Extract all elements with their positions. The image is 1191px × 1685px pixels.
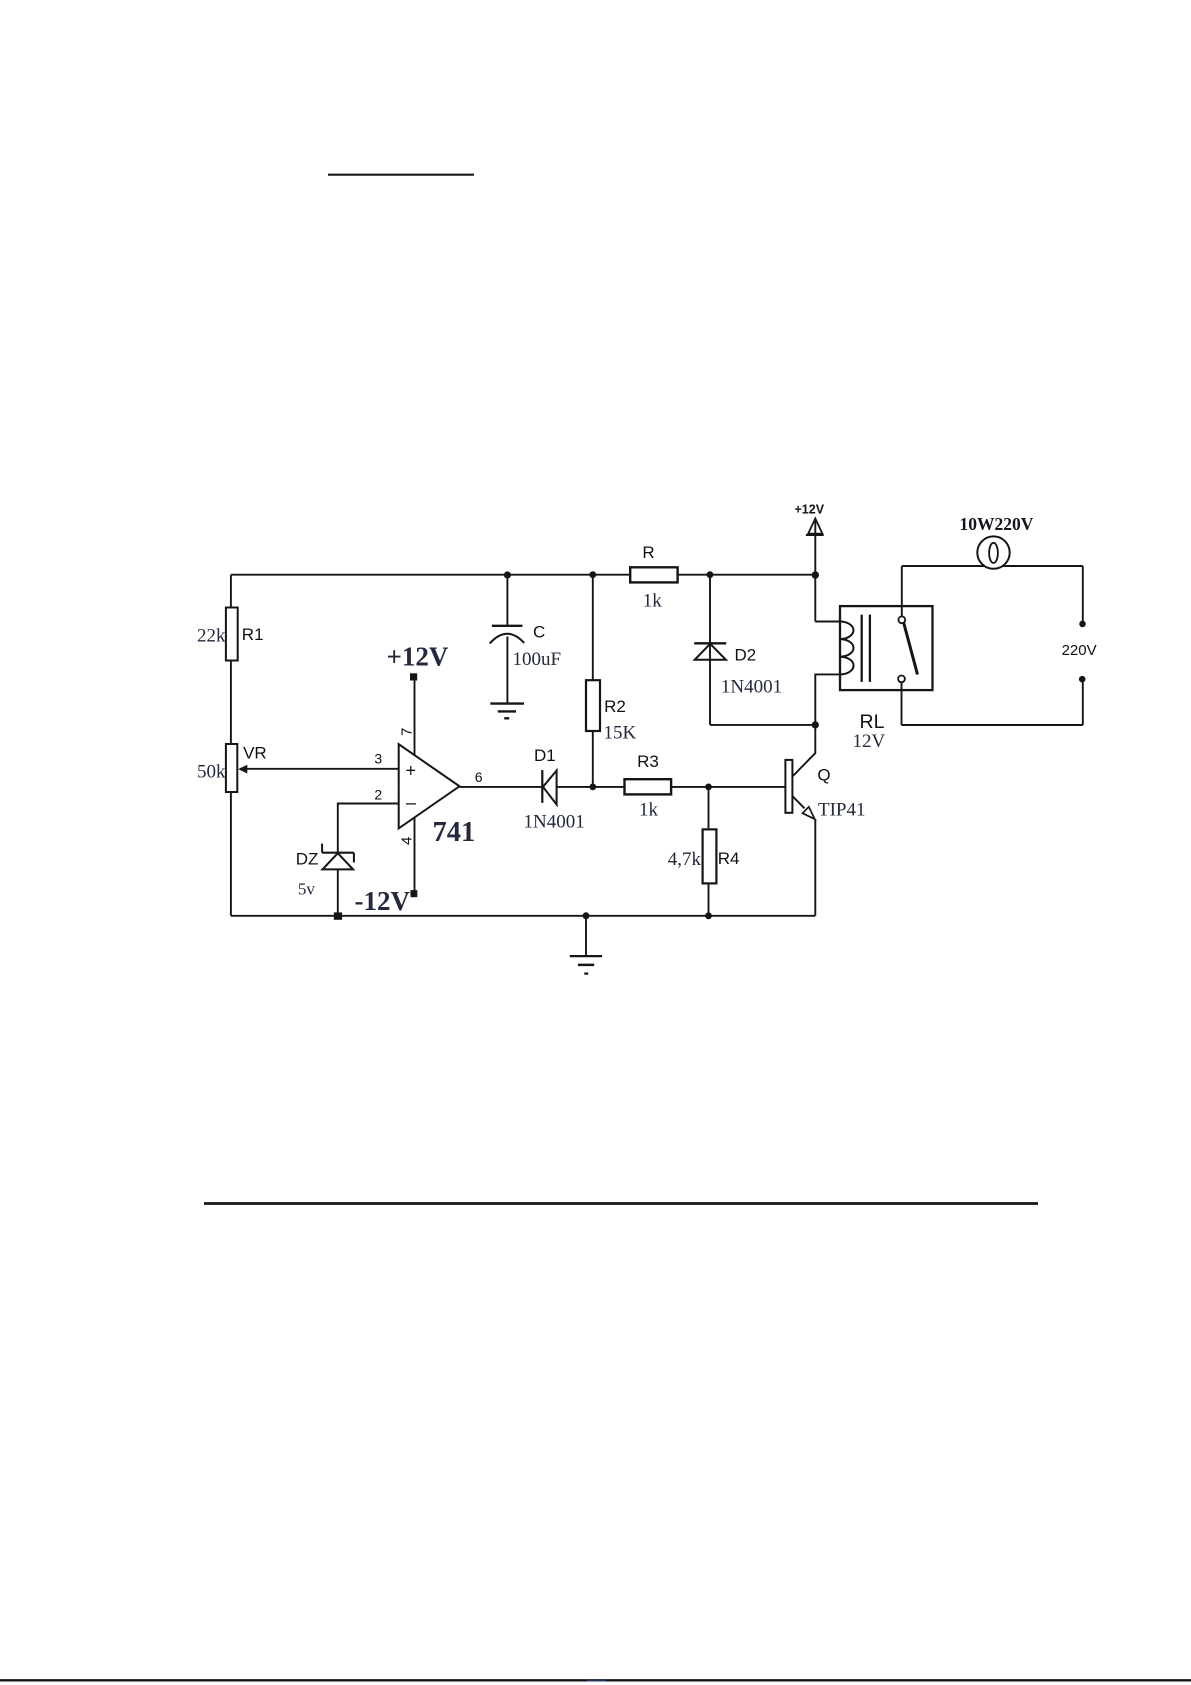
footer rule (0, 1679, 1191, 1681)
svg-text:4,7k: 4,7k (668, 849, 702, 870)
ground (capacitor) (490, 704, 524, 719)
svg-text:220V: 220V (1062, 642, 1097, 659)
node top rail at R2 (589, 571, 596, 578)
resistor R2 (586, 680, 637, 743)
wire R4 to bottom rail (708, 883, 710, 915)
pin 4 wire (414, 817, 416, 890)
svg-text:2: 2 (374, 787, 382, 803)
pin 7 wire (414, 681, 416, 757)
node 220V top terminal (1079, 621, 1086, 628)
transistor Q TIP41 (785, 725, 865, 821)
node top rail at +12V (812, 571, 819, 578)
node R4 bottom junction (705, 912, 712, 919)
node top rail at D2 (707, 571, 714, 578)
svg-text:10W220V: 10W220V (959, 514, 1033, 534)
resistor R1 (197, 608, 264, 661)
wire R4 branch (708, 787, 710, 830)
relay core lines (862, 615, 870, 682)
svg-text:R4: R4 (718, 849, 740, 868)
svg-text:5v: 5v (298, 880, 316, 899)
zener diode DZ (296, 844, 354, 899)
wire emitter down (814, 819, 816, 916)
svg-text:-12V: -12V (355, 886, 411, 916)
svg-text:+12V: +12V (795, 503, 825, 517)
diode D1 1N4001 (524, 746, 585, 833)
svg-text:12V: 12V (853, 731, 886, 752)
wire D2 to collector node (710, 724, 815, 726)
svg-text:D1: D1 (534, 746, 556, 765)
wire relay coil top stub (815, 621, 840, 623)
resistor R4 (668, 829, 740, 883)
svg-text:D2: D2 (735, 646, 757, 665)
svg-text:R3: R3 (637, 752, 659, 771)
svg-text:741: 741 (433, 817, 476, 848)
svg-text:15K: 15K (604, 723, 637, 744)
wire ground stem (585, 916, 587, 956)
op-amp U1 741 (399, 744, 476, 848)
section rule (204, 1202, 1038, 1205)
relay RL box (840, 606, 933, 690)
power +12V square pad (410, 673, 417, 680)
ground (bottom rail) (570, 956, 602, 974)
svg-text:1k: 1k (639, 800, 659, 821)
svg-text:1N4001: 1N4001 (524, 812, 585, 833)
svg-text:+: + (406, 761, 417, 781)
wire op-amp output (460, 786, 593, 788)
diode D2 1N4001 (694, 643, 782, 697)
power +12V arrow (795, 503, 825, 622)
node 220V bottom terminal (1079, 676, 1086, 683)
potentiometer VR (197, 744, 267, 793)
wire switch bottom (901, 682, 903, 725)
wire D2 branch (709, 575, 711, 725)
relay switch (898, 616, 917, 682)
wire DZ to bottom rail (337, 869, 339, 915)
resistor R (630, 543, 677, 612)
svg-text:22k: 22k (197, 626, 226, 647)
svg-text:Q: Q (817, 766, 830, 785)
wire lamp loop top (902, 565, 1083, 567)
wire bottom rail (231, 915, 815, 917)
svg-text:–: – (406, 793, 416, 813)
wire R3 to base (671, 786, 785, 788)
node B junction (589, 784, 596, 791)
svg-text:4: 4 (398, 837, 415, 845)
relay coil arcs (840, 622, 854, 675)
node top rail at C (504, 571, 511, 578)
capacitor C (490, 575, 561, 704)
power -12V square pad (411, 890, 418, 897)
wire left rail (230, 575, 232, 916)
node collector junction (812, 721, 819, 728)
wire pin2 input (338, 804, 399, 853)
wire relay coil bottom stub (815, 674, 840, 725)
node DZ bottom junction (334, 912, 342, 919)
wire R2 branch top (592, 575, 594, 681)
wiper arrowhead (238, 765, 247, 774)
svg-text:50k: 50k (197, 762, 226, 783)
node ground junction (583, 912, 590, 919)
svg-text:1N4001: 1N4001 (721, 677, 782, 698)
svg-text:DZ: DZ (296, 850, 319, 869)
wire wiper to pin 3 (240, 768, 399, 770)
svg-text:VR: VR (243, 744, 267, 763)
svg-text:1k: 1k (643, 591, 663, 612)
svg-text:3: 3 (374, 751, 382, 767)
node base junction (705, 784, 712, 791)
wire switch top (901, 566, 903, 616)
svg-text:R1: R1 (242, 625, 264, 644)
wire node B to R3 (593, 786, 625, 788)
footer page mark (587, 1679, 606, 1681)
svg-text:C: C (533, 623, 545, 642)
svg-text:6: 6 (475, 769, 483, 785)
resistor R3 (625, 752, 672, 821)
svg-text:R: R (642, 543, 654, 562)
label RL 12V (853, 711, 886, 752)
svg-text:7: 7 (398, 728, 415, 736)
svg-text:+12V: +12V (387, 641, 449, 671)
svg-text:R2: R2 (604, 697, 626, 716)
lamp 10W220V (959, 514, 1033, 569)
svg-text:TIP41: TIP41 (818, 800, 866, 821)
svg-text:RL: RL (860, 711, 885, 733)
wire top rail (231, 574, 815, 576)
wire R2 to node B (592, 731, 594, 787)
title underline (328, 174, 474, 176)
wire 220V right side (902, 566, 1083, 725)
svg-text:100uF: 100uF (513, 649, 562, 670)
